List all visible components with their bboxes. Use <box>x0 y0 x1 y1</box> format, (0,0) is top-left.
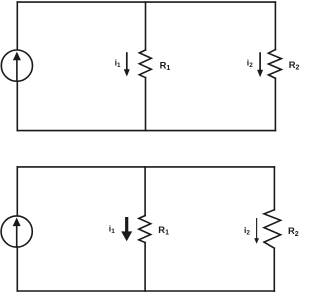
wire top circuit top side <box>17 1 275 3</box>
svg-text:i1: i1 <box>115 57 121 69</box>
label i1 (bottom circuit) <box>109 223 115 235</box>
label i1 (top circuit) <box>115 57 121 69</box>
wire bottom circuit middle branch upper <box>144 167 146 216</box>
label i2 (top circuit) <box>247 57 253 69</box>
svg-text:R2: R2 <box>289 59 300 72</box>
svg-text:R1: R1 <box>158 224 169 237</box>
wire top circuit right side lower <box>274 78 276 130</box>
label R2 (top circuit) <box>289 59 300 72</box>
resistor R2 (bottom circuit) <box>264 210 281 248</box>
wire bottom circuit middle branch lower <box>144 243 146 292</box>
resistor R1 (bottom circuit) <box>139 216 151 243</box>
wire top circuit bottom side <box>17 130 275 132</box>
wire bottom circuit bottom side <box>17 290 274 292</box>
svg-text:R1: R1 <box>160 59 171 72</box>
resistor R1 (top circuit) <box>139 50 151 78</box>
label R1 (bottom circuit) <box>158 224 169 237</box>
current arrow i2 thin (bottom circuit) <box>254 218 259 244</box>
wire bottom circuit left side <box>16 167 18 291</box>
svg-text:i2: i2 <box>244 225 250 237</box>
current arrow i2 (top circuit) <box>257 52 263 77</box>
current source I (bottom circuit) <box>1 216 32 247</box>
current arrow i1 (top circuit) <box>124 52 130 76</box>
current arrow i1 bold (bottom circuit) <box>121 217 132 241</box>
wire bottom circuit top side <box>17 166 274 168</box>
wire bottom circuit right side lower <box>273 248 275 291</box>
wire top circuit middle branch upper <box>145 2 147 50</box>
current source I (top circuit) <box>1 50 32 81</box>
svg-text:i2: i2 <box>247 57 253 69</box>
label i2 (bottom circuit) <box>244 225 250 237</box>
wire bottom circuit right side upper <box>273 167 275 210</box>
resistor R2 (top circuit) <box>268 50 281 79</box>
svg-text:i1: i1 <box>109 223 115 235</box>
label R1 (top circuit) <box>160 59 171 72</box>
svg-text:R2: R2 <box>288 225 299 238</box>
wire top circuit middle branch lower <box>145 78 147 131</box>
wire top circuit left side <box>16 2 18 131</box>
label R2 (bottom circuit) <box>288 225 299 238</box>
wire top circuit right side upper <box>274 2 276 50</box>
